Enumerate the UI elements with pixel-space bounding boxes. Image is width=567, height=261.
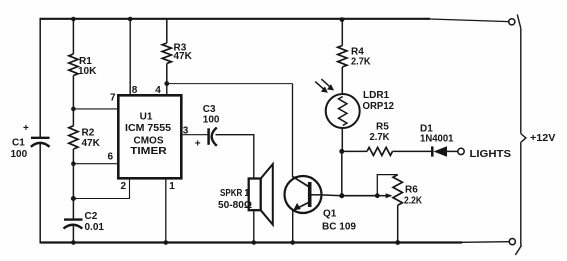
wire: C2 bottom lead — [72, 226, 74, 243]
svg-text:C2: C2 — [85, 211, 98, 222]
wire: left branch to C1 — [39, 18, 41, 244]
svg-text:0.01: 0.01 — [85, 222, 105, 233]
wire: Q1 base to divider — [322, 194, 342, 197]
svg-text:BC 109: BC 109 — [322, 222, 356, 233]
junction: Q1 emitter / ground rail — [290, 240, 295, 245]
svg-text:+: + — [23, 123, 29, 134]
wire: pin 8 — [129, 19, 131, 96]
svg-text:4: 4 — [155, 85, 161, 96]
wire: pin 2 L-wire — [73, 179, 129, 199]
junction: top rail / R1 — [71, 17, 76, 22]
light arrows into LDR1 — [315, 79, 334, 93]
svg-text:U1: U1 — [140, 112, 153, 123]
wire: R3 bottom lead — [166, 64, 168, 84]
junction: top rail / R4 — [340, 17, 345, 22]
svg-text:2.7K: 2.7K — [351, 56, 371, 67]
resistor R3 — [162, 43, 171, 64]
junction: speaker / ground rail — [252, 240, 257, 245]
junction: top rail / pin 8 — [128, 17, 133, 22]
svg-text:2.7K: 2.7K — [370, 132, 391, 143]
photoresistor LDR1 — [326, 94, 360, 128]
wire: LDR to node — [341, 128, 343, 152]
resistor R4 — [338, 46, 347, 68]
wire: speaker to ground — [253, 210, 255, 242]
svg-text:100: 100 — [11, 149, 28, 160]
wire: pin 1 to ground — [165, 178, 167, 242]
wire: base node to R6 wiper — [342, 195, 378, 197]
svg-text:3: 3 — [183, 125, 189, 136]
junction: R6 / ground rail — [395, 240, 400, 245]
terminal: bottom-right supply circle — [509, 239, 515, 245]
junction: R6 wiper tie — [375, 193, 380, 198]
resistor R1 — [69, 54, 78, 76]
capacitor C3 — [209, 128, 217, 146]
wire: supply lead top diagonal — [517, 15, 521, 29]
op-amp/timer IC U1 body — [118, 95, 181, 178]
svg-text:R2: R2 — [82, 128, 95, 139]
svg-text:2: 2 — [121, 181, 127, 192]
capacitor C1 — [31, 138, 50, 147]
svg-text:+12V: +12V — [530, 133, 556, 144]
svg-text:47K: 47K — [82, 138, 101, 149]
svg-text:LIGHTS: LIGHTS — [470, 149, 512, 160]
wire: R4 top lead — [341, 19, 343, 46]
diode D1 — [432, 146, 447, 157]
svg-text:6: 6 — [108, 151, 114, 162]
wire: pin6 node down to pin2 node — [72, 164, 74, 199]
terminal: LIGHTS circle — [458, 148, 464, 154]
svg-text:C3: C3 — [203, 104, 216, 115]
wire: R2 bottom lead — [72, 149, 74, 164]
junction: Q1 base node — [339, 193, 344, 198]
junction: pin 6 node — [71, 161, 76, 166]
svg-text:R6: R6 — [405, 184, 418, 195]
wire: pin 4 net to Q1 collector — [167, 84, 293, 177]
svg-text:1N4001: 1N4001 — [420, 133, 454, 144]
svg-text:1: 1 — [169, 181, 175, 192]
wire: R1 bottom lead — [72, 76, 74, 109]
wire: R5 left lead — [342, 150, 367, 152]
junction: LDR / R5 node — [339, 149, 344, 154]
svg-text:50-80Ω: 50-80Ω — [218, 200, 252, 211]
potentiometer R6 (rheostat) — [377, 175, 402, 206]
svg-text:TIMER: TIMER — [130, 146, 167, 157]
wire: C3 to speaker — [216, 135, 254, 179]
junction: pin 1 / ground rail — [164, 240, 169, 245]
junction: pin 7 node — [71, 107, 76, 112]
svg-text:7: 7 — [110, 92, 116, 103]
junction: pin 2 node — [71, 196, 76, 201]
supply chevron at +12V — [521, 134, 526, 143]
transistor Q1 — [285, 176, 323, 213]
svg-text:LDR1: LDR1 — [363, 90, 390, 101]
wire: node down to Q1 base junction — [341, 151, 343, 195]
junction: pin 4 node — [164, 81, 169, 86]
wire: D1 to LIGHTS terminal — [447, 150, 458, 152]
resistor R2 — [69, 126, 78, 149]
svg-text:100: 100 — [203, 115, 220, 126]
wire: R2 top lead — [72, 109, 74, 126]
wire: R5 to D1 — [393, 150, 432, 152]
wire: R3 top lead — [166, 19, 168, 43]
junction: C2 / ground rail — [71, 240, 76, 245]
svg-text:Q1: Q1 — [323, 209, 337, 220]
wire: pin 4 stub — [166, 84, 168, 96]
svg-text:+: + — [195, 139, 201, 150]
wire: C2 top lead — [72, 199, 74, 220]
wire: R4 to LDR — [341, 67, 343, 95]
wire: supply lead bottom diagonal — [515, 245, 521, 255]
svg-text:ORP12: ORP12 — [363, 101, 395, 112]
svg-text:C1: C1 — [12, 137, 25, 148]
capacitor C2 — [64, 220, 83, 229]
svg-text:47K: 47K — [174, 51, 193, 62]
svg-text:SPKR 1: SPKR 1 — [220, 188, 249, 199]
wire: +12V top supply rail — [40, 19, 509, 22]
wire: pin 7 — [73, 108, 118, 110]
svg-text:R5: R5 — [376, 121, 389, 132]
wire: bottom ground rail — [40, 241, 509, 244]
wire: R6 bottom lead — [397, 205, 399, 242]
wire: pin 3 — [181, 134, 208, 136]
wire: Q1 emitter to ground — [292, 210, 294, 243]
svg-text:2.2K: 2.2K — [404, 195, 423, 206]
wire: R1 top lead — [72, 19, 74, 54]
wire: right supply vertical bus — [520, 28, 522, 245]
terminal: top-right supply circle — [509, 19, 515, 25]
svg-text:ICM 7555: ICM 7555 — [125, 123, 171, 134]
resistor R5 — [367, 147, 393, 155]
speaker SPKR1 — [249, 164, 273, 225]
wire: pin 6 — [73, 163, 118, 165]
svg-text:10K: 10K — [78, 66, 97, 77]
svg-text:CMOS: CMOS — [134, 135, 164, 146]
